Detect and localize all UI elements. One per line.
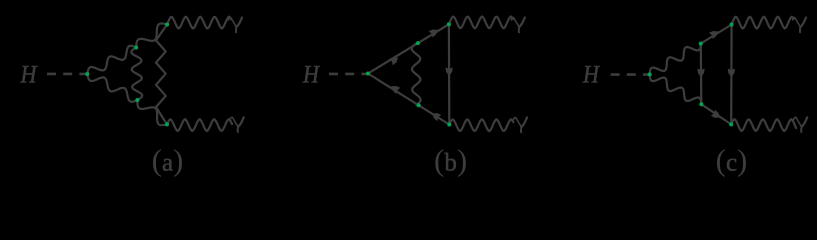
- svg-text:H: H: [302, 62, 321, 89]
- svg-text:H: H: [20, 62, 39, 89]
- svg-text:(b): (b): [434, 143, 467, 178]
- svg-text:(a): (a): [152, 143, 184, 178]
- svg-text:(c): (c): [716, 143, 748, 178]
- svg-text:H: H: [582, 62, 601, 89]
